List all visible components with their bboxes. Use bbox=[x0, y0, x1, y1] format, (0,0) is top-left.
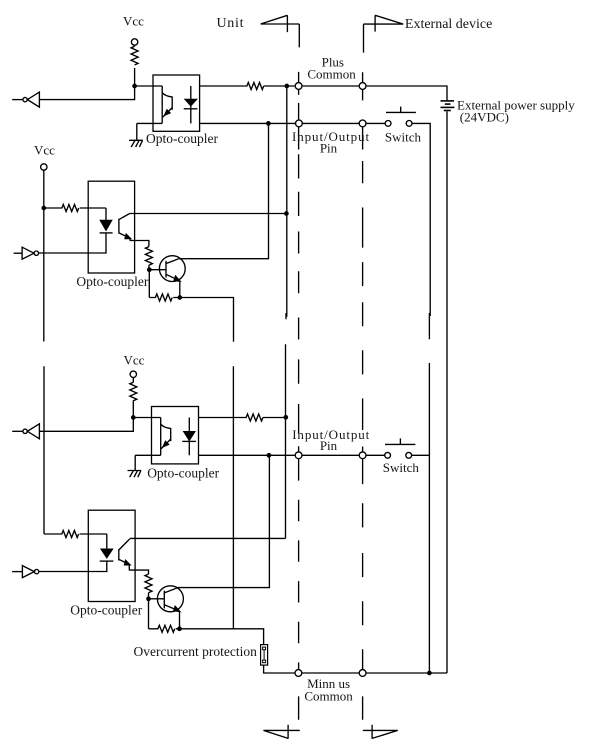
node C1 junction (I/O row 1) bbox=[267, 122, 270, 125]
wire opto U2 emitter to R4 bbox=[130, 238, 149, 246]
wire junction to opto U1 anode-side bbox=[135, 85, 163, 87]
svg-text:Switch: Switch bbox=[383, 460, 420, 475]
svg-text:Common: Common bbox=[304, 688, 353, 703]
node A2 junction bbox=[132, 416, 135, 419]
wire minus common span bbox=[302, 672, 359, 674]
opto-coupler U3 phototransistor (left half) bbox=[161, 418, 171, 456]
minus common terminal (external side) bbox=[359, 670, 366, 677]
svg-text:Unit: Unit bbox=[217, 16, 245, 31]
transistor Q1 (NPN) bbox=[159, 256, 185, 282]
opto-coupler U1 body bbox=[153, 75, 200, 131]
wire I/O row 1 span bbox=[302, 122, 359, 124]
resistor R6 (pull-up, vertical) bbox=[130, 378, 137, 418]
opto-coupler U4 LED (left half) bbox=[106, 534, 108, 549]
dashed boundary line (external side, x=362.6) bbox=[362, 72, 364, 720]
wire emitter node to overcurrent protection bbox=[180, 629, 264, 645]
svg-text:External device: External device bbox=[405, 17, 492, 32]
buffer U6 (output driver, points right) bbox=[22, 247, 34, 259]
overcurrent protection F1 (fuse) bbox=[261, 645, 268, 666]
node C2 junction (I/O row 2) bbox=[267, 454, 270, 457]
wire Q1 collector to I/O row 1 bbox=[179, 123, 269, 258]
svg-text:Common: Common bbox=[307, 66, 356, 81]
switch S1 bbox=[385, 121, 391, 127]
unit boundary flag (top left) bbox=[261, 15, 300, 47]
resistor R2 (to plus common, horizontal) bbox=[200, 83, 296, 90]
battery B1 (external power supply 24VDC) bbox=[441, 100, 455, 102]
wire junction down to buffer output bbox=[39, 418, 133, 432]
wire emitter node to common drop (broken at block seam) bbox=[180, 298, 234, 629]
input/output pin 1 terminal (unit side) bbox=[296, 120, 303, 127]
resistor R9 (base series, vertical) bbox=[145, 574, 152, 599]
svg-text:Switch: Switch bbox=[385, 130, 422, 145]
wire minus common to battery return bbox=[366, 672, 447, 674]
wire I/O row 2 (opto U3 to pin) bbox=[199, 454, 296, 456]
resistor R4 (base series, vertical) bbox=[145, 247, 152, 270]
wire Q2 emitter down bbox=[179, 611, 181, 629]
wire opto U4 emitter to R9 bbox=[129, 564, 148, 574]
resistor R5 (emitter shunt, horizontal) bbox=[149, 294, 180, 301]
wire I/O row 2 span bbox=[302, 454, 359, 456]
dashed boundary line (unit side, x=298.6) bbox=[298, 72, 300, 720]
opto-coupler U3 LED (right half) bbox=[188, 418, 190, 456]
plus common terminal (unit side) bbox=[295, 83, 302, 90]
wire junction down to buffer output bbox=[39, 86, 134, 100]
input/output pin 2 terminal (external side) bbox=[359, 452, 366, 459]
resistor R1 (pull-up, vertical) bbox=[131, 45, 138, 86]
svg-text:Vcc: Vcc bbox=[124, 353, 145, 368]
Vcc terminal (input 1) bbox=[131, 39, 137, 45]
minus common terminal (unit side) bbox=[295, 670, 302, 677]
node B2 junction (plus rail tap) bbox=[284, 416, 287, 419]
svg-text:Overcurrent protection: Overcurrent protection bbox=[134, 644, 258, 659]
node G2 junction (emitter node) bbox=[178, 627, 181, 630]
wire I/O row 1 (opto U1 to pin) bbox=[200, 122, 296, 124]
ground (opto U3 cathode-side) bbox=[128, 455, 161, 477]
svg-text:Opto-coupler: Opto-coupler bbox=[147, 465, 219, 480]
svg-text:Opto-coupler: Opto-coupler bbox=[146, 131, 218, 146]
wire battery negative rail down to minus common bbox=[446, 112, 448, 674]
wire plus common span bbox=[302, 85, 359, 87]
wire switch S1 return (down, broken at block seam) bbox=[412, 123, 430, 673]
opto-coupler U3 body bbox=[152, 407, 199, 464]
node F1 junction (Q1 base node) bbox=[148, 268, 151, 271]
wire buffer to internal logic bbox=[12, 430, 23, 432]
Vcc terminal (input 2) bbox=[130, 371, 136, 377]
wire fuse to minus common row bbox=[264, 665, 295, 673]
unit boundary flag (bottom left) bbox=[263, 725, 299, 739]
plus rail (vertical x=286.8) bbox=[286, 86, 287, 538]
wire to switch S2 bbox=[366, 454, 385, 456]
node G1 junction (emitter node) bbox=[178, 296, 181, 299]
wire opto U4 collector up to plus rail bbox=[130, 537, 286, 539]
wire base node down to R5 bbox=[148, 270, 150, 298]
opto-coupler U2 LED (left half) bbox=[105, 208, 107, 220]
node F2 junction (Q2 base node) bbox=[147, 597, 150, 600]
transistor Q2 (NPN) bbox=[157, 586, 183, 612]
resistor R8 (LED series, horizontal) bbox=[44, 531, 107, 538]
opto-coupler U2 body bbox=[88, 181, 134, 273]
wire opto U2 collector to plus rail bbox=[130, 213, 286, 215]
wire Q2 collector to I/O row 2 bbox=[179, 455, 270, 587]
svg-text:Opto-coupler: Opto-coupler bbox=[76, 274, 148, 289]
buffer U7 (input driver, points left) bbox=[27, 424, 39, 439]
node E1 junction (collector to plus rail) bbox=[285, 212, 288, 215]
svg-text:Vcc: Vcc bbox=[123, 14, 144, 29]
Vcc rail (vertical x=43.8, broken at block seam) bbox=[43, 170, 45, 534]
svg-text:Pin: Pin bbox=[320, 141, 338, 156]
svg-text:Pin: Pin bbox=[320, 438, 338, 453]
wire switch S2 to return line bbox=[412, 454, 430, 456]
opto-coupler U4 phototransistor (right half) bbox=[119, 539, 130, 565]
input/output pin 2 terminal (unit side) bbox=[295, 452, 302, 459]
wire base node to Q2 base bbox=[149, 598, 165, 600]
buffer U5 (input driver, points left) bbox=[27, 92, 39, 107]
opto-coupler U1 phototransistor (left half) bbox=[162, 86, 172, 123]
wire plus common to battery bbox=[366, 86, 447, 100]
opto-coupler U2 phototransistor (right half) bbox=[119, 214, 130, 239]
resistor R3 (LED series, horizontal) bbox=[44, 205, 106, 212]
wire base node to Q1 base bbox=[149, 269, 166, 271]
svg-text:Opto-coupler: Opto-coupler bbox=[70, 603, 142, 618]
Vcc terminal (output rail) bbox=[41, 164, 47, 170]
wire junction to opto U3 anode-side bbox=[133, 417, 160, 419]
input/output pin 1 terminal (external side) bbox=[359, 120, 366, 127]
external device boundary flag (bottom right) bbox=[363, 725, 398, 739]
opto-coupler U4 body bbox=[88, 510, 135, 601]
plus common terminal (external side) bbox=[359, 83, 366, 90]
wire Q1 emitter down bbox=[179, 281, 181, 298]
switch S2 bbox=[385, 452, 391, 458]
svg-text:(24VDC): (24VDC) bbox=[460, 110, 509, 125]
resistor R7 (to plus rail, horizontal) bbox=[199, 414, 286, 421]
wire buffer to internal logic bbox=[12, 99, 23, 101]
external device boundary flag (top right) bbox=[364, 15, 404, 52]
opto-coupler U1 LED (right half) bbox=[190, 86, 192, 123]
resistor R10 (emitter shunt, horizontal) bbox=[149, 625, 180, 632]
node D1 junction (LED feed) bbox=[42, 206, 45, 209]
svg-text:Vcc: Vcc bbox=[34, 142, 55, 157]
node A1 junction bbox=[133, 84, 136, 87]
node B1 junction (plus rail tap) bbox=[285, 84, 288, 87]
wire to switch S1 bbox=[366, 122, 385, 124]
buffer U8 (output driver, points right) bbox=[22, 566, 34, 578]
wire base node down to R10 bbox=[148, 599, 150, 629]
ground (opto U1 cathode-side) bbox=[129, 123, 162, 147]
node H1 junction (switch return to minus common) bbox=[428, 671, 431, 674]
